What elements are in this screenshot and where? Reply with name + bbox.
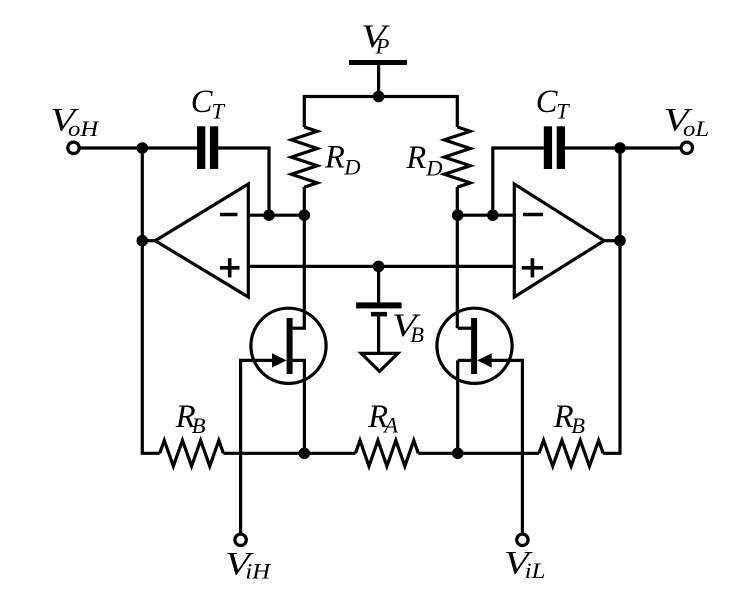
node VoL junction — [614, 142, 626, 154]
transistor M1 — [251, 308, 326, 383]
wire U1 output node to bottom rail — [142, 241, 159, 454]
battery VB — [356, 302, 402, 316]
resistor RD2 — [444, 127, 470, 187]
svg-text:P: P — [375, 34, 390, 59]
node RD2 bottom junction — [452, 209, 464, 221]
node VP junction — [373, 91, 385, 103]
ground — [361, 353, 398, 371]
wire top rail — [304, 97, 457, 128]
wire CT2 to U2 minus input — [493, 148, 544, 215]
svg-text:C: C — [536, 84, 558, 120]
terminal VoL — [681, 142, 692, 153]
terminal ViL — [517, 534, 528, 545]
wire U2 minus input — [458, 214, 515, 217]
wire U1 minus input — [248, 214, 304, 217]
op-amp U1 — [155, 184, 248, 297]
wire plus rail node to battery VB — [377, 266, 380, 302]
wire U2 output stub — [604, 239, 620, 242]
capacitor CT1 — [197, 126, 218, 169]
wire CT2 to VoL node — [565, 146, 620, 149]
supply VP bar — [349, 60, 407, 65]
wire VoL node to terminal — [620, 146, 680, 149]
resistor RD1 — [291, 127, 317, 187]
wire rail RB1 to RA — [223, 452, 355, 455]
terminal VoH — [68, 142, 79, 153]
wire bottom rail to U2 output node — [603, 241, 620, 454]
svg-text:R: R — [324, 140, 345, 176]
wire RD2 to M2 drain — [456, 187, 459, 328]
svg-text:A: A — [382, 413, 398, 438]
svg-text:oH: oH — [68, 117, 100, 142]
node U1 output — [137, 235, 149, 247]
svg-text:T: T — [556, 99, 570, 124]
svg-text:B: B — [571, 413, 585, 438]
node M1 source rail junction — [299, 448, 311, 460]
wire U2 output node to VoL node — [618, 148, 621, 241]
wire M2 source to bottom rail — [456, 360, 459, 453]
wire VoH node to U1 output node — [141, 148, 144, 241]
svg-text:B: B — [192, 413, 206, 438]
node U2 output — [614, 235, 626, 247]
node minus stub junction (left) — [263, 209, 275, 221]
resistor RB2 — [539, 440, 603, 466]
svg-text:C: C — [191, 84, 213, 120]
resistor RB1 — [160, 440, 224, 466]
resistor RA — [356, 440, 419, 466]
transistor M2 — [437, 308, 512, 383]
svg-text:oL: oL — [683, 117, 709, 142]
wire VoH node to CT1 — [142, 146, 197, 149]
svg-text:D: D — [343, 155, 360, 180]
wire CT1 to U1 minus input — [218, 148, 269, 215]
svg-text:R: R — [405, 140, 426, 176]
wire ViH to M1 gate — [241, 360, 276, 532]
node M2 source rail junction — [452, 448, 464, 460]
wire VoH terminal to node — [80, 146, 142, 149]
terminal ViH — [235, 534, 246, 545]
wire rail RA to RB2 — [418, 452, 539, 455]
node minus stub junction (right) — [487, 209, 499, 221]
wire U1 output stub — [142, 239, 155, 242]
capacitor CT2 — [544, 126, 565, 169]
node plus rail center — [373, 261, 385, 273]
wire plus rail (U1+ to U2+) — [248, 265, 514, 268]
wire RD1 to M1 drain — [303, 187, 306, 328]
wire M1 source to bottom rail — [303, 360, 306, 453]
wire ViL to M2 gate — [488, 360, 522, 532]
node VoH junction — [137, 142, 149, 154]
svg-text:iL: iL — [525, 559, 546, 584]
svg-text:T: T — [212, 99, 226, 124]
svg-text:B: B — [410, 322, 424, 347]
svg-text:iH: iH — [245, 559, 272, 584]
wire battery VB to ground — [377, 316, 380, 352]
node RD1 bottom junction — [299, 209, 311, 221]
svg-text:D: D — [425, 156, 442, 181]
wire VP bar to top rail — [377, 64, 380, 97]
op-amp U2 — [514, 184, 604, 297]
